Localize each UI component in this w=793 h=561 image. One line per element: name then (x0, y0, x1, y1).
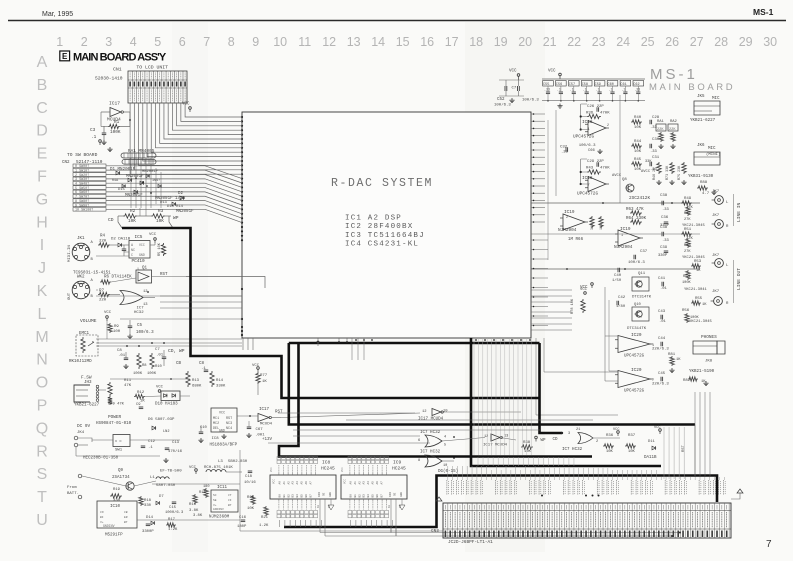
svg-text:B2: B2 (287, 494, 290, 498)
svg-text:330: 330 (144, 504, 152, 508)
svg-text:3: 3 (105, 35, 112, 49)
svg-text:12: 12 (484, 435, 488, 439)
svg-text:R18: R18 (144, 499, 152, 503)
svg-text:NC3: NC3 (226, 422, 232, 426)
svg-text:CD, WP: CD, WP (168, 348, 185, 354)
svg-text:R64 330K: R64 330K (626, 217, 647, 221)
wire IC18A feedback (580, 104, 582, 130)
svg-text:B2: B2 (358, 494, 361, 498)
svg-text:U: U (36, 512, 48, 529)
svg-text:VCC: VCC (270, 467, 273, 472)
svg-text:330P: 330P (658, 254, 668, 258)
svg-text:1.2K: 1.2K (168, 528, 178, 532)
svg-text:100/6.3: 100/6.3 (628, 260, 645, 265)
svg-text:.1: .1 (583, 88, 587, 92)
svg-text:7: 7 (766, 539, 772, 550)
wires right edge verticals (555, 110, 557, 196)
svg-text:C38: C38 (660, 226, 668, 230)
svg-text:IC11: IC11 (217, 486, 228, 490)
wire bus vertical x540 (540, 343, 563, 433)
ground left of CN3 (436, 497, 442, 501)
svg-text:10K: 10K (634, 126, 642, 130)
svg-text:C: C (131, 254, 133, 258)
svg-text:E: E (62, 52, 68, 61)
svg-text:RA2: RA2 (670, 120, 678, 124)
svg-text:C52: C52 (497, 98, 505, 102)
svg-text:D2 DA11B: D2 DA11B (111, 238, 131, 242)
svg-text:5: 5 (444, 444, 446, 448)
svg-text:RK10J12MD: RK10J12MD (69, 360, 92, 364)
svg-text:B4: B4 (296, 494, 299, 498)
svg-text:IC3 TC511664BJ: IC3 TC511664BJ (345, 232, 425, 240)
wires right edge row extensions (531, 289, 572, 291)
svg-text:10K: 10K (524, 450, 532, 454)
wire phones feed vertical (604, 287, 606, 381)
svg-text:10K: 10K (628, 450, 636, 454)
svg-text:B: B (37, 77, 48, 94)
svg-text:8: 8 (418, 459, 420, 463)
svg-text:GNDINV: GNDINV (103, 524, 115, 528)
svg-text:C32: C32 (560, 146, 568, 150)
svg-text:C29 22P: C29 22P (587, 160, 604, 164)
svg-text:F.SW: F.SW (81, 376, 92, 381)
svg-text:330K: 330K (216, 385, 226, 389)
svg-text:R56: R56 (682, 309, 690, 313)
svg-text:12: 12 (422, 410, 427, 414)
svg-text:18: 18 (469, 35, 483, 49)
svg-text:.33: .33 (634, 88, 640, 92)
svg-text:10: 10 (443, 464, 447, 468)
svg-text:OE: OE (323, 492, 326, 496)
svg-text:YKC21-3045: YKC21-3045 (689, 320, 713, 324)
svg-text:1.2K: 1.2K (259, 524, 269, 528)
svg-text:MIC: MIC (712, 97, 720, 101)
svg-text:R14: R14 (216, 379, 224, 383)
svg-text:1K: 1K (696, 269, 701, 273)
svg-text:C26 22P: C26 22P (587, 105, 604, 109)
svg-text:R10: R10 (155, 365, 163, 369)
svg-text:MCUD4: MCUD4 (260, 423, 273, 427)
svg-text:6: 6 (418, 439, 420, 443)
svg-text:VCC: VCC (341, 467, 344, 472)
R-DAC bottom comb to connector (473, 338, 475, 455)
svg-text:BATT.: BATT. (67, 492, 79, 496)
svg-text:R-DAC SYSTEM: R-DAC SYSTEM (331, 177, 433, 190)
svg-text:AVCC: AVCC (612, 174, 622, 178)
svg-text:IC7 HC32: IC7 HC32 (420, 451, 441, 455)
resistor R79 47K (108, 396, 112, 405)
svg-text:R36: R36 (606, 434, 614, 438)
svg-text:R6 DTA114EK: R6 DTA114EK (104, 276, 132, 280)
svg-text:IC8: IC8 (322, 460, 331, 466)
svg-text:HC245: HC245 (321, 466, 335, 472)
svg-text:RA1: RA1 (657, 120, 665, 124)
wires emc to rdac upper (96, 295, 242, 297)
wires right column to connector (694, 392, 696, 476)
svg-text:C30: C30 (652, 138, 660, 142)
ic IC6 HS1883A/BFP reset (211, 408, 237, 432)
svg-text:7: 7 (588, 184, 590, 188)
svg-text:180P: 180P (237, 525, 247, 529)
svg-text:C: C (36, 100, 48, 117)
svg-text:GND: GND (219, 429, 225, 433)
diode D4 cluster extra (122, 184, 125, 187)
svg-text:.33: .33 (662, 208, 670, 212)
svg-text:C8: C8 (199, 362, 205, 366)
svg-text:19: 19 (494, 35, 508, 49)
svg-text:R1: R1 (114, 120, 120, 125)
svg-text:I: I (40, 237, 44, 254)
svg-text:15: 15 (396, 35, 410, 49)
svg-text:VCC: VCC (182, 103, 190, 107)
diode network D10 HA183 (161, 391, 180, 401)
svg-text:C41: C41 (658, 277, 666, 281)
svg-text:VCC: VCC (219, 412, 225, 416)
svg-text:C38: C38 (660, 194, 668, 198)
svg-text:DIR: DIR (389, 492, 392, 497)
svg-text:DC 9V: DC 9V (77, 424, 91, 429)
svg-text:UPC4572G: UPC4572G (624, 390, 645, 394)
svg-text:25: 25 (641, 35, 655, 49)
svg-text:Q10: Q10 (634, 303, 642, 307)
svg-text:13: 13 (347, 35, 361, 49)
IC9 DIR OE wires down (390, 499, 392, 533)
svg-text:JK5: JK5 (697, 95, 705, 99)
svg-text:C8: C8 (117, 349, 122, 353)
svg-text:Q11: Q11 (638, 272, 646, 276)
wires CN2 rows to R-DAC (106, 166, 242, 179)
svg-text:D15: D15 (118, 188, 126, 192)
svg-text:H: H (36, 214, 48, 231)
svg-text:R79 47K: R79 47K (108, 403, 125, 407)
svg-text:A7: A7 (380, 481, 383, 485)
junction dots above CN3 (541, 495, 543, 497)
svg-text:A4: A4 (367, 481, 370, 485)
svg-text:CN2: CN2 (62, 161, 70, 165)
capacitor C67 .001 (247, 426, 252, 428)
svg-text:R8: R8 (142, 364, 147, 368)
svg-text:B1: B1 (354, 494, 357, 498)
svg-text:IC17: IC17 (259, 408, 270, 412)
svg-text:C62: C62 (633, 83, 639, 87)
svg-text:100/6.3: 100/6.3 (522, 98, 539, 103)
svg-text:C39: C39 (660, 246, 668, 250)
bypass capacitor row C55-C62 (542, 78, 645, 80)
wire bus B to y424 (289, 343, 695, 425)
svg-text:R77: R77 (260, 374, 268, 378)
svg-text:22K: 22K (657, 128, 664, 132)
svg-text:21: 21 (576, 428, 580, 432)
svg-text:2: 2 (596, 440, 598, 444)
svg-text:B5: B5 (301, 494, 304, 498)
svg-text:.01: .01 (659, 320, 667, 324)
wire line-in jack bracket (733, 194, 735, 226)
svg-text:G: G (36, 191, 48, 208)
svg-text:BT: BT (228, 504, 232, 507)
svg-text:100/6.3: 100/6.3 (136, 330, 154, 335)
svg-text:B6: B6 (305, 494, 308, 498)
svg-text:A4: A4 (296, 481, 299, 485)
wire top right of block down (619, 95, 621, 203)
svg-text:27K: 27K (684, 218, 691, 222)
wire long left to rdac rows (160, 295, 242, 297)
or-gate IC7 HC32 (midi) (120, 291, 143, 305)
svg-text:10K: 10K (247, 507, 255, 511)
ic IC9 HC245 (341, 475, 407, 499)
svg-text:470K: 470K (600, 112, 610, 116)
svg-text:29: 29 (739, 35, 753, 49)
resistor R11 47K (108, 382, 112, 396)
svg-text:OE: OE (394, 492, 397, 496)
svg-text:T: T (37, 489, 47, 506)
svg-text:IC19: IC19 (564, 210, 575, 215)
svg-text:VCC: VCC (509, 70, 517, 74)
svg-text:RST: RST (226, 417, 232, 421)
svg-text:L1: L1 (150, 476, 155, 480)
svg-text:.33: .33 (561, 151, 569, 155)
svg-text:NJM2360M: NJM2360M (209, 516, 230, 520)
svg-text:5B02-030: 5B02-030 (228, 460, 248, 464)
svg-text:21: 21 (543, 35, 557, 49)
svg-text:VCC: VCC (139, 243, 145, 247)
resistor R13 680K (186, 371, 190, 387)
svg-text:D11: D11 (648, 440, 656, 444)
svg-text:B7: B7 (309, 494, 312, 498)
svg-text:AVCC: AVCC (641, 170, 651, 174)
svg-text:C57: C57 (569, 83, 575, 87)
svg-text:VCC: VCC (654, 426, 660, 430)
jack JK8 phones (693, 341, 717, 354)
svg-text:O: O (36, 375, 48, 392)
CN3 cell text hatch (444, 512, 446, 528)
svg-text:A7: A7 (309, 481, 312, 485)
svg-text:1/80: 1/80 (616, 304, 626, 309)
resistor R10 100K vertical (150, 353, 154, 369)
svg-text:A5: A5 (372, 481, 375, 485)
svg-text:A2: A2 (287, 481, 290, 485)
svg-text:R48 2K: R48 2K (653, 167, 657, 180)
svg-text:D: D (36, 123, 48, 140)
svg-text:B0: B0 (279, 494, 282, 498)
svg-text:22K: 22K (669, 128, 676, 132)
wire IC18B feedback (580, 159, 582, 184)
svg-text:LINE IN: LINE IN (736, 202, 742, 222)
svg-text:4: 4 (130, 35, 137, 49)
svg-text:C55: C55 (543, 83, 549, 87)
svg-text:IC2 28F400BX: IC2 28F400BX (345, 223, 413, 231)
svg-text:12: 12 (322, 35, 336, 49)
svg-text:B1: B1 (283, 494, 286, 498)
svg-text:S: S (37, 466, 48, 483)
svg-text:10: 10 (317, 504, 320, 508)
svg-text:C58: C58 (582, 83, 588, 87)
svg-text:N: N (36, 352, 48, 369)
svg-text:R12: R12 (137, 391, 145, 395)
svg-text:NJM2904: NJM2904 (614, 245, 633, 250)
svg-text:M: M (35, 329, 48, 346)
svg-text:IC7 HC32: IC7 HC32 (420, 431, 441, 435)
svg-text:220/6.3: 220/6.3 (652, 382, 669, 387)
R-DAC bottom edge dots (355, 339, 357, 341)
R-DAC left edge pin dots (241, 116, 243, 118)
svg-text:CD: CD (108, 217, 114, 223)
svg-text:C40: C40 (614, 274, 622, 278)
svg-text:C18: C18 (245, 475, 253, 479)
connector CN3 body (443, 503, 731, 538)
svg-text:LINE OUT: LINE OUT (736, 268, 742, 290)
svg-text:10 SW100?: 10 SW100? (75, 209, 93, 213)
svg-text:.1: .1 (621, 88, 625, 92)
R-DAC bottom stubs left (242, 338, 244, 350)
svg-text:7: 7 (203, 35, 210, 49)
grid row letters A-U (35, 54, 48, 529)
svg-text:220/6.3: 220/6.3 (652, 347, 669, 352)
svg-text:.33: .33 (662, 239, 670, 243)
ic IC8 HC245 (270, 475, 336, 499)
svg-text:1: 1 (137, 267, 139, 271)
svg-text:3300P: 3300P (142, 530, 154, 534)
svg-text:VCC: VCC (156, 386, 164, 390)
svg-text:10K: 10K (156, 219, 164, 224)
svg-text:P: P (37, 398, 48, 415)
svg-text:100K: 100K (133, 372, 143, 376)
wire rail line-in bottom (531, 233, 700, 235)
svg-text:R55: R55 (695, 297, 703, 301)
svg-text:D10 HA183: D10 HA183 (155, 403, 178, 407)
svg-text:10K: 10K (606, 450, 614, 454)
svg-text:C56: C56 (556, 83, 562, 87)
svg-text:BT: BT (124, 521, 128, 524)
svg-text:A1: A1 (354, 481, 357, 485)
svg-text:10K: 10K (634, 150, 642, 154)
title box E (60, 51, 70, 61)
svg-text:PHONES: PHONES (701, 335, 717, 340)
svg-text:R40: R40 (634, 116, 642, 120)
vcc near CN2 (99, 140, 102, 143)
svg-text:33K: 33K (645, 160, 652, 164)
svg-text:Q9: Q9 (118, 469, 124, 473)
wires CN1 to R-DAC (130, 103, 242, 174)
svg-text:3.8K: 3.8K (189, 509, 199, 513)
wires power (92, 439, 113, 441)
svg-text:.1: .1 (570, 88, 574, 92)
svg-text:.01: .01 (660, 287, 668, 291)
svg-text:R19: R19 (113, 488, 121, 492)
svg-text:C13: C13 (172, 441, 180, 445)
R-DAC system block U-RDAC (242, 112, 531, 338)
svg-text:27: 27 (690, 35, 704, 49)
svg-text:M5291FP: M5291FP (105, 534, 123, 538)
svg-text:16: 16 (420, 35, 434, 49)
svg-text:MS-1: MS-1 (753, 7, 774, 17)
svg-text:IC1 A2 DSP: IC1 A2 DSP (345, 215, 402, 223)
svg-text:R4A: R4A (112, 179, 119, 183)
svg-text:D14: D14 (146, 516, 154, 520)
svg-text:JK6: JK6 (697, 144, 705, 148)
svg-text:470K: 470K (600, 167, 610, 171)
svg-text:VOLUME: VOLUME (80, 318, 97, 324)
svg-text:VCC: VCC (548, 70, 556, 74)
grid column numbers 1-30 (56, 35, 777, 49)
svg-text:10/16: 10/16 (244, 480, 256, 485)
svg-text:1M R66: 1M R66 (568, 238, 584, 242)
svg-text:JC2D-J6BPF-LT1-A1: JC2D-J6BPF-LT1-A1 (448, 540, 493, 545)
svg-text:YKB31-9130: YKB31-9130 (688, 175, 714, 179)
wire IC10 to CN3 rail (137, 519, 240, 521)
wire bus horizontal y343 (289, 342, 540, 345)
svg-text:HS90847-01-010: HS90847-01-010 (96, 422, 132, 426)
svg-text:SE: SE (213, 499, 217, 502)
svg-text:C31: C31 (652, 156, 660, 160)
svg-text:DTC314TK: DTC314TK (632, 296, 652, 300)
svg-text:VCC: VCC (252, 364, 260, 368)
connector CN1 to LCD unit (128, 71, 187, 103)
svg-text:C67: C67 (256, 428, 264, 432)
svg-text:3.8K: 3.8K (193, 514, 203, 518)
svg-text:J: J (38, 260, 46, 277)
wire bus C to IC8 (279, 343, 592, 457)
svg-text:WK2: WK2 (77, 276, 85, 280)
svg-text:180: 180 (203, 485, 209, 489)
svg-text:o o: o o (115, 440, 121, 444)
svg-text:10K: 10K (128, 219, 136, 224)
svg-text:DIR: DIR (318, 492, 321, 497)
svg-text:EMC1: EMC1 (79, 332, 90, 336)
svg-text:2SC2412K: 2SC2412K (629, 196, 650, 201)
svg-text:C3: C3 (90, 128, 96, 133)
svg-text:YKB21-5190: YKB21-5190 (689, 370, 715, 374)
svg-text:2: 2 (566, 216, 568, 220)
svg-text:B7: B7 (380, 494, 383, 498)
svg-text:26: 26 (665, 35, 679, 49)
svg-text:LN2: LN2 (163, 430, 169, 434)
svg-text:JK7: JK7 (712, 190, 720, 194)
svg-text:MIDI-IN: MIDI-IN (68, 245, 72, 262)
wires comb risers to bus B (663, 427, 665, 479)
svg-text:POWER: POWER (108, 415, 122, 420)
wire Q1 to RST (152, 276, 187, 278)
svg-text:DA11B: DA11B (644, 456, 657, 460)
svg-text:8: 8 (228, 35, 235, 49)
svg-text:10: 10 (388, 504, 391, 508)
wire rail line-out (531, 268, 700, 270)
svg-text:D2: D2 (178, 192, 184, 196)
svg-text:R82: R82 (683, 379, 691, 383)
IC8 bottom pin label grid (278, 501, 280, 510)
svg-text:PC410: PC410 (132, 259, 146, 264)
CN3 pin number ticks (444, 505, 446, 510)
wires IC8 IC9 to CN3 row (279, 520, 281, 527)
svg-text:B0: B0 (350, 494, 353, 498)
vcc R36m (617, 431, 620, 434)
svg-text:30: 30 (763, 35, 777, 49)
svg-text:A3: A3 (292, 481, 295, 485)
vcc IC11 (195, 469, 198, 472)
svg-text:.001: .001 (255, 434, 265, 438)
wire RST to gates (281, 413, 420, 418)
svg-text:B3: B3 (363, 494, 366, 498)
svg-text:5807-030: 5807-030 (156, 484, 176, 488)
svg-text:Q8: Q8 (622, 178, 627, 182)
svg-text:11: 11 (298, 35, 311, 49)
wires comb CN3 upper (477, 457, 479, 466)
svg-text:R9: R9 (114, 325, 119, 329)
resistor R14 330K (210, 371, 214, 387)
svg-text:HS1883A/BFP: HS1883A/BFP (210, 443, 238, 448)
svg-text:CB: CB (176, 362, 182, 366)
svg-text:NJM2904: NJM2904 (558, 228, 577, 233)
wires gates outputs (442, 438, 485, 442)
